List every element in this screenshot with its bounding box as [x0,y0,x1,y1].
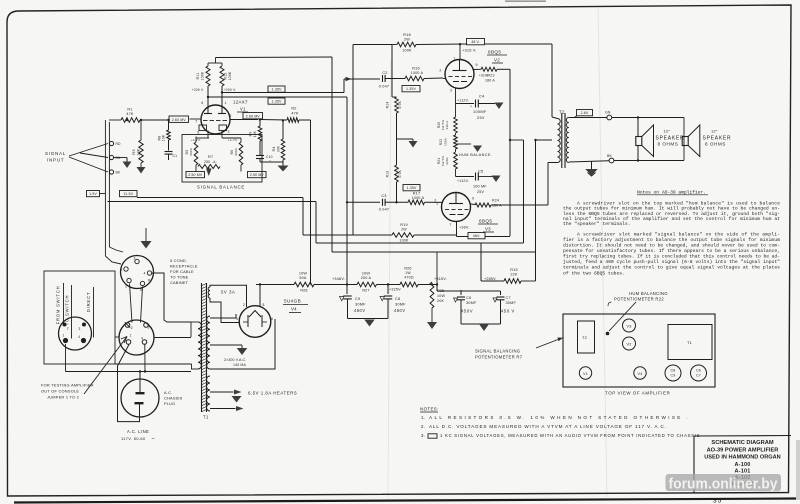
svg-text:2: 2 [439,69,441,73]
svg-text:C10: C10 [266,155,273,159]
svg-text:6BQ5: 6BQ5 [479,219,492,224]
svg-text:+36V.: +36V. [459,226,469,230]
svg-text:PLUG: PLUG [164,401,175,406]
svg-text:6BQ5: 6BQ5 [488,50,501,55]
svg-text:180 A: 180 A [485,79,495,83]
svg-text:T1: T1 [203,415,209,420]
svg-text:+1.7V.: +1.7V. [228,138,238,142]
svg-text:V3: V3 [626,325,631,329]
svg-text:T1: T1 [687,340,693,345]
svg-text:2W: 2W [404,38,410,42]
svg-text:+346V.: +346V. [332,277,345,281]
svg-text:+: + [470,105,472,109]
svg-text:R27: R27 [362,289,369,293]
svg-text:100 MF: 100 MF [473,185,487,189]
svg-text:100A: 100A [444,138,448,146]
svg-text:3: 3 [148,326,150,330]
svg-text:V4: V4 [291,307,297,312]
svg-text:R11: R11 [196,73,200,80]
svg-text:30MF: 30MF [466,301,477,305]
svg-text:C3: C3 [381,194,386,198]
svg-text:33K: 33K [277,145,281,152]
svg-text:2.: 2. [421,424,425,429]
svg-text:2: 2 [131,326,133,330]
svg-text:1.35V: 1.35V [407,186,417,190]
svg-text:10W: 10W [362,272,371,276]
svg-text:+315V.: +315V. [434,277,447,281]
svg-text:C7: C7 [506,296,511,300]
svg-text:R1: R1 [127,108,132,112]
svg-text:8 OHMS: 8 OHMS [658,142,679,147]
svg-text:POTENTIOMETER R22: POTENTIOMETER R22 [614,297,664,302]
svg-text:220A: 220A [445,157,449,165]
svg-text:1: 1 [63,334,65,338]
svg-text:of the two 6BQ5 tubes.: of the two 6BQ5 tubes. [563,270,625,276]
svg-text:3: 3 [228,130,230,134]
svg-text:~: ~ [152,437,155,443]
svg-text:117V. 50-60: 117V. 50-60 [121,436,146,441]
svg-text:7: 7 [449,223,451,227]
svg-text:R23: R23 [488,74,495,78]
svg-text:ALL D.C. VOLTAGES MEASURED WI: ALL D.C. VOLTAGES MEASURED WITH A VTVM A… [429,424,667,429]
svg-text:5V 3A: 5V 3A [221,290,235,295]
svg-text:1000 A: 1000 A [412,196,425,200]
svg-text:2×300 V.A.C.: 2×300 V.A.C. [224,358,246,362]
svg-text:3: 3 [79,327,81,331]
svg-text:2.60 MV: 2.60 MV [172,118,187,122]
svg-text:1: 1 [130,334,132,338]
svg-text:C2: C2 [382,71,387,75]
svg-text:220-A: 220-A [445,121,449,130]
svg-text:C8: C8 [671,369,676,373]
svg-text:1: 1 [225,101,227,105]
svg-text:forum.onliner.by: forum.onliner.by [669,477,778,493]
svg-text:-A-: -A- [212,160,217,164]
svg-text:450V: 450V [354,308,366,313]
svg-text:V3: V3 [485,227,491,232]
svg-text:fier is a factory adjustment t: fier is a factory adjustment to balance … [563,237,780,243]
svg-text:R13: R13 [386,171,390,178]
svg-text:46V.: 46V. [473,234,480,238]
svg-text:2: 2 [67,327,69,331]
svg-text:8: 8 [197,131,199,135]
svg-text:C6: C6 [466,296,471,300]
svg-text:6: 6 [271,317,273,321]
svg-text:C7: C7 [696,374,701,378]
svg-text:100K: 100K [228,71,232,80]
svg-text:2.50 MV: 2.50 MV [188,173,203,177]
svg-text:HUM BALANCING: HUM BALANCING [629,291,668,296]
svg-text:10K: 10K [162,134,166,141]
svg-text:C9: C9 [671,374,676,378]
svg-text:less the 6BQ5 tubes are replac: less the 6BQ5 tubes are replaced or reve… [563,211,780,217]
svg-text:the "speaker" terminals.: the "speaker" terminals. [563,221,631,227]
svg-text:BK: BK [116,171,121,175]
svg-text:CABINET: CABINET [170,280,189,285]
svg-text:25V: 25V [477,115,485,120]
svg-text:+200 V.: +200 V. [224,88,236,92]
svg-text:CHASSIS: CHASSIS [164,396,183,401]
svg-text:5U4GB: 5U4GB [284,299,301,304]
svg-text:×: × [562,337,564,341]
svg-text:RECEPTACLE: RECEPTACLE [170,264,198,269]
svg-text:+315 V.: +315 V. [462,48,477,53]
svg-text:R19: R19 [400,223,408,227]
svg-text:FOR TESTING AMPLIFIER: FOR TESTING AMPLIFIER [41,383,94,388]
svg-text:R26: R26 [404,267,411,271]
svg-text:30MF: 30MF [395,302,406,307]
svg-text:first try replacing tubes. If: first try replacing tubes. If it is conc… [563,254,780,260]
svg-text:+200 V.: +200 V. [192,88,204,92]
svg-text:250: 250 [204,160,210,164]
svg-text:C1: C1 [173,154,178,158]
svg-text:V1: V1 [240,107,246,112]
svg-text:SIGNAL: SIGNAL [45,151,66,156]
svg-text:R22: R22 [439,139,443,145]
svg-text:9: 9 [472,197,474,201]
svg-text:HUM BALANCE.: HUM BALANCE. [459,153,492,157]
svg-text:47K: 47K [126,112,134,116]
svg-text:R17: R17 [413,192,421,196]
svg-text:7: 7 [195,120,197,124]
svg-text:distortion. It should not need: distortion. It should not need to be cha… [563,243,780,249]
svg-text:TOP VIEW OF AMPLIFIER: TOP VIEW OF AMPLIFIER [605,391,670,396]
svg-text:A-101: A-101 [735,468,751,474]
svg-text:0.047: 0.047 [379,208,390,212]
svg-text:pensate for unsatisfactory tub: pensate for unsatisfactory tubes. If the… [563,248,780,254]
svg-text:12AX7: 12AX7 [233,100,248,105]
svg-text:A screwdriver slot on the top: A screwdriver slot on the top marked "hu… [577,201,780,207]
svg-text:450V: 450V [394,308,406,313]
svg-text:R7: R7 [208,155,213,159]
svg-text:6.5V 1.8A HEATERS: 6.5V 1.8A HEATERS [248,391,297,396]
svg-text:JUMPER 1 TO 2: JUMPER 1 TO 2 [47,395,79,400]
svg-text:Notes on AO-39 amplifier.: Notes on AO-39 amplifier. [637,189,706,195]
svg-text:470K: 470K [398,169,402,178]
svg-text:R15: R15 [510,268,518,272]
svg-text:BN: BN [116,156,121,160]
svg-text:R18: R18 [403,32,411,37]
svg-text:POTENTIOMETER R7: POTENTIOMETER R7 [475,355,523,360]
svg-text:+112V.: +112V. [457,179,469,183]
svg-text:V2: V2 [626,343,631,347]
svg-text:+325V.: +325V. [389,288,402,292]
svg-text:1000 A: 1000 A [411,71,424,75]
svg-text:R9: R9 [249,132,253,137]
svg-text:T2: T2 [582,335,588,340]
svg-text:SIGNAL BALANCE: SIGNAL BALANCE [197,185,245,190]
svg-text:BK: BK [607,154,613,158]
svg-text:200 A: 200 A [361,276,372,280]
svg-text:R2: R2 [291,107,296,111]
svg-text:INPUT: INPUT [47,158,64,163]
svg-text:V2: V2 [494,58,500,63]
svg-text:R3: R3 [131,149,136,155]
svg-text:20K: 20K [437,299,445,303]
svg-text:USED IN HAMMOND ORGAN: USED IN HAMMOND ORGAN [704,455,780,461]
svg-text:22K: 22K [510,273,518,277]
svg-text:A.C.: A.C. [164,390,172,395]
svg-text:C6: C6 [696,369,701,373]
svg-text:3: 3 [134,257,136,261]
svg-text:C8: C8 [395,296,400,301]
svg-text:V4: V4 [637,372,642,376]
svg-text:12″: 12″ [664,128,671,133]
svg-text:C4: C4 [479,94,485,99]
svg-text:nal input" terminals of the am: nal input" terminals of the amplifier an… [563,216,780,222]
svg-text:100K: 100K [402,49,412,53]
svg-text:DIRECT: DIRECT [86,292,91,312]
svg-text:30MF: 30MF [355,302,366,307]
svg-text:+112V.: +112V. [457,99,469,103]
svg-text:TO TONE: TO TONE [170,275,189,280]
svg-text:4: 4 [141,337,143,341]
svg-text:SCHEMATIC DIAGRAM: SCHEMATIC DIAGRAM [711,440,773,446]
svg-text:SIGNAL BALANCING: SIGNAL BALANCING [475,349,520,354]
svg-text:FOR CABLE: FOR CABLE [170,269,194,274]
svg-text:50A: 50A [299,276,307,280]
svg-text:R24: R24 [492,199,499,203]
svg-text:12″: 12″ [711,128,718,133]
svg-text:+285V.: +285V. [484,277,497,281]
svg-text:10W: 10W [437,294,446,298]
svg-text:2: 2 [230,114,232,118]
svg-text:10W: 10W [299,272,308,276]
svg-text:140 MA: 140 MA [233,363,246,367]
svg-text:450V: 450V [461,309,473,314]
svg-text:1.9V: 1.9V [89,192,97,196]
svg-text:A screwdriver slot marked "sig: A screwdriver slot marked "signal balanc… [577,231,780,237]
svg-text:GN: GN [605,111,611,115]
svg-text:R4: R4 [272,147,276,152]
svg-text:330A: 330A [234,147,238,156]
svg-text:35: 35 [713,498,722,504]
svg-text:0.047: 0.047 [379,85,390,89]
svg-text:R12: R12 [224,72,228,79]
svg-text:2: 2 [121,268,123,272]
svg-text:330A: 330A [189,147,193,156]
svg-text:2W: 2W [401,228,407,232]
svg-text:8 OHMS: 8 OHMS [705,142,726,147]
svg-text:A-100: A-100 [735,462,751,468]
svg-text:the output tubes for minimum h: the output tubes for minimum hum. It wil… [563,206,780,212]
svg-text:100K: 100K [201,71,205,80]
svg-text:justed, feed a 400 cycle push-: justed, feed a 400 cycle push-pull signa… [563,259,780,265]
svg-text:2: 2 [243,303,245,307]
svg-text:1.35V: 1.35V [272,100,282,104]
svg-text:1.: 1. [421,415,425,420]
svg-text:C9: C9 [355,296,360,301]
svg-text:FROM SWITCH: FROM SWITCH [56,286,61,325]
svg-text:100MF: 100MF [473,109,487,114]
svg-text:3: 3 [450,89,452,93]
svg-text:1 KC SIGNAL VOLTAGES, MEASURED: 1 KC SIGNAL VOLTAGES, MEASURED WITH AN A… [440,433,700,438]
svg-text:R14: R14 [386,102,390,109]
svg-text:2.6V: 2.6V [581,111,589,115]
svg-text:30MF: 30MF [506,301,517,305]
svg-text:AO-39 POWER AMPLIFIER: AO-39 POWER AMPLIFIER [707,447,779,453]
svg-text:11.5V: 11.5V [123,192,133,196]
svg-text:1.35V: 1.35V [406,87,416,91]
svg-text:470K: 470K [398,100,402,109]
svg-text:6: 6 [201,101,203,105]
svg-text:1.35V: 1.35V [272,88,282,92]
svg-text:10K: 10K [253,130,257,137]
svg-text:3.: 3. [421,433,425,438]
svg-text:A.C. LINE: A.C. LINE [127,429,149,434]
svg-text:V1: V1 [583,372,588,376]
svg-text:R16: R16 [412,67,420,71]
svg-text:47K: 47K [291,111,299,115]
svg-text:8: 8 [263,303,265,307]
svg-text:terminals and adjust the contr: terminals and adjust the control to give… [563,265,780,271]
svg-text:470Ω: 470Ω [404,276,414,280]
svg-text:9: 9 [476,63,478,67]
svg-text:450 V: 450 V [501,309,515,314]
svg-text:1W: 1W [405,271,411,275]
svg-text:25V: 25V [477,190,485,194]
svg-text:5 COND.: 5 COND. [170,258,187,263]
svg-text:SPEAKER: SPEAKER [656,135,685,141]
svg-text:SPEAKER: SPEAKER [703,135,732,141]
svg-text:R28: R28 [300,289,307,293]
svg-text:1: 1 [125,285,127,289]
svg-text:2.50 MV: 2.50 MV [250,173,265,177]
svg-text:NOTES:: NOTES: [420,407,439,412]
svg-text:2.60 MV: 2.60 MV [246,114,261,118]
svg-text:RD: RD [116,142,122,146]
svg-text:48 V.: 48 V. [471,40,480,44]
svg-text:4: 4 [78,335,80,339]
svg-text:100K: 100K [399,239,409,243]
svg-text:4: 4 [144,272,146,276]
svg-text:OUT OF CONSOLE: OUT OF CONSOLE [41,389,79,394]
svg-text:2: 2 [436,202,438,206]
